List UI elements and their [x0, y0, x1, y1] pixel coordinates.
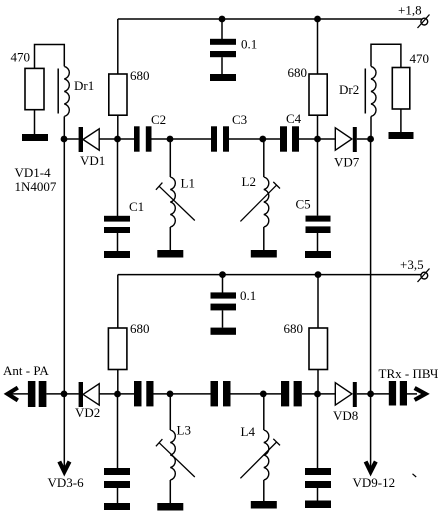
wire arrow to antenna cap	[9, 393, 28, 395]
wire L1 to ground	[169, 227, 171, 250]
junction node on +3,5 rail at 680 right	[315, 271, 322, 278]
capacitor series middle	[211, 381, 231, 406]
svg-text:0.1: 0.1	[241, 37, 257, 52]
junction node K (L4 tap)	[260, 391, 267, 398]
resistor 680 bottom-left	[108, 321, 149, 370]
svg-text:VD9-12: VD9-12	[353, 475, 396, 490]
capacitor 0.1 bottom wire from rail	[222, 275, 224, 293]
capacitor C1	[104, 199, 144, 233]
terminal +1,8	[398, 3, 430, 29]
wire cap to VD8	[302, 393, 336, 395]
wire node J down to L3	[169, 394, 171, 430]
inductor L4 (adjustable)	[240, 424, 280, 480]
wire node E down to L1	[169, 139, 171, 177]
svg-text:470: 470	[410, 51, 430, 66]
svg-text:+3,5: +3,5	[400, 257, 424, 272]
wire antenna cap to node I	[46, 393, 78, 395]
svg-text:680: 680	[130, 68, 150, 83]
svg-text:C3: C3	[232, 112, 247, 127]
svg-text:VD7: VD7	[334, 155, 360, 170]
capacitor series before node H	[281, 381, 302, 406]
wire 0.1 bottom to ground	[222, 310, 224, 327]
diode VD8	[333, 382, 358, 423]
ground under C1	[104, 251, 130, 258]
svg-text:Dr2: Dr2	[339, 82, 359, 97]
wire VD2 to node G	[99, 393, 134, 395]
diode VD7	[334, 127, 360, 170]
wire L3 to ground	[169, 480, 171, 503]
svg-text:1N4007: 1N4007	[15, 179, 57, 194]
ground under 0.1 bottom	[211, 328, 237, 335]
wire 470 left bottom to ground	[34, 110, 36, 135]
wire 680 top-left bottom to node B	[117, 115, 119, 139]
svg-text:C2: C2	[151, 112, 166, 127]
junction node on +3,5 rail at 0.1 cap	[219, 271, 226, 278]
svg-text:470: 470	[11, 50, 31, 65]
wire left vertical from node A down to VD3-6 arrow	[63, 139, 65, 467]
svg-text:L2: L2	[242, 174, 256, 189]
wire C2 to C3	[152, 138, 212, 140]
ground under 470 right	[389, 132, 414, 139]
arrow TRx (right)	[415, 388, 426, 400]
junction node L (right vertical / TRx cap)	[367, 391, 374, 398]
inductor L2 (adjustable)	[240, 174, 280, 227]
svg-text:0.1: 0.1	[240, 288, 256, 303]
resistor 470 left	[11, 50, 45, 110]
resistor 680 top-left	[109, 68, 150, 115]
inductor L1 (adjustable)	[156, 176, 195, 228]
wire 680 bottom-left to node G	[117, 370, 119, 395]
wire VD7 to node D	[357, 138, 371, 140]
ground under L4	[251, 501, 277, 509]
junction node D (Dr2 / VD7 / line down)	[367, 136, 374, 143]
arrow down VD9-12	[366, 462, 376, 472]
wire shunt cap right to ground	[317, 488, 319, 501]
svg-text:C1: C1	[129, 199, 144, 214]
wire L2 to ground	[263, 227, 265, 250]
wire node F down to L2	[263, 139, 265, 177]
diode VD1	[79, 127, 106, 168]
svg-text:VD8: VD8	[333, 408, 358, 423]
svg-text:VD1: VD1	[80, 153, 105, 168]
wire VD8 to node L	[357, 393, 371, 395]
resistor 680 bottom-right	[284, 321, 328, 370]
wire 680 top-right bottom to node C	[317, 115, 319, 139]
wire C4 to VD7	[299, 138, 335, 140]
svg-text:Dr1: Dr1	[74, 78, 94, 93]
junction node C (680 / C5 / main wire)	[314, 136, 321, 143]
wire 680 bottom-right to node H	[317, 370, 319, 395]
junction node F (C3 / C4 / L2)	[259, 136, 266, 143]
wire TRx cap to arrow	[407, 393, 417, 395]
capacitor antenna series	[28, 381, 47, 407]
wire C5 to ground	[317, 233, 319, 251]
wire 680 bottom-left to rail	[117, 275, 119, 328]
wire 470 left top to Dr1 top	[35, 45, 65, 69]
ground under 470 left	[22, 134, 48, 141]
wire node L to TRx cap	[371, 393, 389, 395]
junction node B (680 / C1 / main wire)	[114, 136, 121, 143]
capacitor shunt bottom-right	[305, 468, 331, 488]
wire Dr2 bottom to node D	[370, 116, 372, 139]
capacitor series after VD2	[134, 381, 154, 406]
wire C3 to C4	[229, 138, 280, 140]
ground under C5	[305, 251, 331, 258]
arrow Ant - PA (left)	[8, 388, 18, 401]
capacitor C5	[296, 197, 331, 234]
svg-text:680: 680	[284, 321, 304, 336]
arrow down VD3-6	[59, 462, 69, 472]
wire cap to mid cap	[154, 393, 211, 395]
wire Dr1 bottom to node A	[63, 116, 65, 139]
capacitor 0.1 bottom	[211, 288, 257, 310]
svg-text:VD2: VD2	[75, 405, 100, 420]
stray tick mark	[413, 474, 417, 477]
choke Dr2	[339, 66, 376, 116]
svg-text:+1,8: +1,8	[398, 3, 422, 18]
resistor 680 top-right	[288, 65, 328, 115]
svg-text:L4: L4	[241, 424, 256, 439]
junction node I (left vertical / VD2)	[61, 391, 68, 398]
junction node G (680 / shunt cap / bottom wire)	[114, 391, 121, 398]
capacitor C4	[280, 111, 302, 152]
capacitor 0.1 top wire from rail	[221, 19, 223, 39]
wire right vertical from node D down to VD9-12 arrow	[370, 139, 372, 467]
diode VD2	[75, 382, 100, 420]
wire Dr2 top to 470 right top	[371, 44, 401, 67]
svg-text:L3: L3	[177, 423, 191, 438]
wire mid cap to next cap	[231, 393, 282, 395]
wire 680 top-right to rail	[317, 19, 319, 74]
wire 0.1 top to ground	[221, 57, 223, 74]
capacitor 0.1 top	[210, 37, 257, 58]
wire VD1 to node B	[99, 138, 134, 140]
wire shunt cap left to ground	[117, 488, 119, 503]
wire main top segment node A to VD1	[64, 138, 79, 140]
inductor L3 (adjustable)	[156, 423, 195, 481]
ground under L2	[251, 250, 277, 258]
capacitor TRx series	[389, 381, 407, 406]
ground under shunt cap left	[104, 503, 130, 510]
junction node on +1,8 rail at 0.1 cap	[219, 16, 226, 23]
capacitor shunt bottom-left	[104, 468, 130, 488]
capacitor C3	[211, 112, 247, 152]
wire node B down to C1	[117, 139, 119, 216]
wire L4 to ground	[263, 480, 265, 502]
svg-text:680: 680	[288, 65, 308, 80]
capacitor C2	[134, 112, 166, 152]
svg-text:C5: C5	[296, 197, 311, 212]
ground under L1	[157, 250, 183, 258]
svg-text:VD3-6: VD3-6	[48, 475, 85, 490]
wire 470 right bottom to ground	[400, 109, 402, 133]
terminal +3,5	[400, 257, 430, 282]
wire node K down to L4	[263, 394, 265, 430]
wire 680 bottom-right to rail	[317, 275, 319, 328]
net +3,5 bottom supply rail wire	[118, 274, 422, 276]
svg-text:C4: C4	[286, 111, 302, 126]
junction node A (Dr1 / VD1 / line down)	[61, 136, 68, 143]
svg-text:TRx - ПВЧ: TRx - ПВЧ	[379, 366, 439, 381]
ground under shunt cap right	[305, 501, 331, 509]
choke Dr1	[58, 66, 94, 116]
wire node G down to shunt cap left	[117, 394, 119, 468]
wire node C down to C5	[317, 139, 319, 216]
resistor 470 right	[392, 51, 429, 109]
junction node on +1,8 rail at 680 right	[314, 16, 321, 23]
junction node J (L3 tap)	[167, 391, 174, 398]
wire node H down to shunt cap right	[317, 394, 319, 468]
net +1,8 top supply rail wire	[118, 18, 422, 20]
junction node E (C2 / C3 / L1)	[167, 136, 174, 143]
svg-text:L1: L1	[181, 176, 195, 191]
svg-text:680: 680	[130, 321, 150, 336]
ground under L3	[157, 503, 183, 511]
wire 680 top-left to rail	[117, 19, 119, 74]
ground under 0.1 top	[210, 74, 236, 81]
wire C1 to ground	[117, 233, 119, 251]
junction node H (680 / shunt cap / bottom wire)	[314, 391, 321, 398]
svg-text:Ant - PA: Ant - PA	[3, 363, 49, 378]
svg-text:VD1-4: VD1-4	[15, 165, 52, 180]
